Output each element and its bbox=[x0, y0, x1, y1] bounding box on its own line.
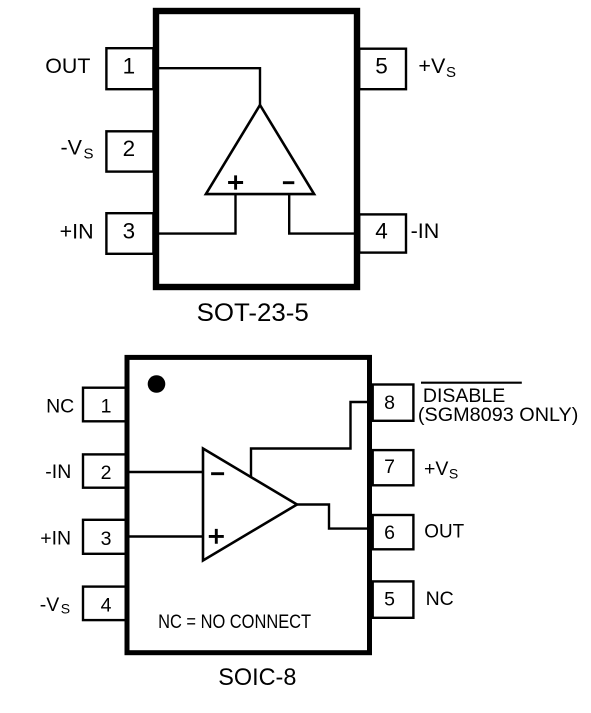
pin 8 box (SOIC) bbox=[373, 385, 414, 421]
pin 5 box bbox=[359, 49, 406, 89]
svg-text:3: 3 bbox=[101, 528, 112, 550]
svg-text:(SGM8093 ONLY): (SGM8093 ONLY) bbox=[418, 404, 579, 426]
pin 6 box (SOIC) bbox=[373, 515, 414, 549]
pin 2 box (SOIC) bbox=[83, 454, 126, 487]
wire pin 4 to op-amp - input bbox=[289, 193, 358, 234]
pin 1 box (SOIC) bbox=[83, 388, 126, 422]
svg-text:-IN: -IN bbox=[411, 219, 440, 243]
pin 3 box bbox=[106, 213, 153, 254]
svg-text:2: 2 bbox=[123, 136, 136, 161]
wire pin 1 to op-amp output bbox=[153, 68, 260, 106]
op-amp - input symbol (SOIC) bbox=[211, 472, 224, 475]
wire pin 3 to op-amp + input bbox=[153, 193, 236, 234]
IC body SOT-23-5 package outline bbox=[156, 11, 357, 287]
svg-text:+IN: +IN bbox=[60, 219, 94, 243]
pin 5 box (SOIC) bbox=[373, 581, 414, 617]
svg-text:+V: +V bbox=[418, 54, 446, 78]
op-amp A2 triangle (SOIC) bbox=[203, 449, 297, 561]
svg-text:-IN: -IN bbox=[45, 461, 71, 483]
svg-text:6: 6 bbox=[384, 522, 395, 544]
svg-text:2: 2 bbox=[101, 462, 112, 484]
pin 4 box bbox=[359, 214, 406, 252]
op-amp - input symbol bbox=[283, 181, 294, 184]
DISABLE overline bbox=[421, 382, 522, 384]
svg-text:5: 5 bbox=[375, 54, 388, 79]
svg-text:OUT: OUT bbox=[45, 54, 90, 78]
svg-text:1: 1 bbox=[101, 396, 112, 418]
svg-text:NC = NO CONNECT: NC = NO CONNECT bbox=[158, 611, 311, 633]
svg-text:-V: -V bbox=[61, 135, 83, 159]
op-amp A1 triangle (SOT-23-5) bbox=[206, 105, 314, 194]
pin 4 box (SOIC) bbox=[83, 587, 126, 621]
svg-text:8: 8 bbox=[384, 392, 395, 414]
IC body SOIC-8 package outline bbox=[127, 357, 370, 652]
wire pin 2 to op-amp - input (SOIC) bbox=[125, 471, 203, 473]
svg-text:SOT-23-5: SOT-23-5 bbox=[197, 300, 309, 327]
svg-text:3: 3 bbox=[123, 218, 136, 243]
pin 7 box (SOIC) bbox=[373, 450, 414, 485]
svg-text:+V: +V bbox=[424, 458, 448, 480]
svg-text:5: 5 bbox=[384, 589, 395, 611]
svg-text:SOIC-8: SOIC-8 bbox=[218, 664, 296, 691]
pin 1 indicator dot bbox=[148, 375, 166, 393]
svg-text:4: 4 bbox=[101, 595, 112, 617]
op-amp + input symbol bbox=[228, 175, 243, 189]
svg-text:S: S bbox=[61, 601, 70, 617]
wire pin 3 to op-amp + input (SOIC) bbox=[125, 535, 203, 537]
pin 1 box bbox=[106, 48, 153, 89]
wire op-amp output to pin 6 (SOIC) bbox=[296, 505, 372, 529]
svg-text:7: 7 bbox=[384, 456, 395, 478]
op-amp + input symbol (SOIC) bbox=[209, 529, 224, 544]
pin 3 box (SOIC) bbox=[83, 520, 126, 554]
svg-text:NC: NC bbox=[426, 588, 454, 610]
svg-text:1: 1 bbox=[123, 53, 136, 78]
svg-text:S: S bbox=[84, 145, 94, 162]
svg-text:NC: NC bbox=[46, 395, 74, 417]
pin 2 box bbox=[106, 131, 153, 171]
svg-text:OUT: OUT bbox=[424, 521, 464, 543]
wire pin 8 DISABLE to op-amp top edge (SOIC) bbox=[251, 402, 372, 478]
svg-text:-V: -V bbox=[40, 594, 60, 616]
svg-text:4: 4 bbox=[375, 218, 388, 243]
svg-text:+IN: +IN bbox=[40, 528, 71, 550]
svg-text:S: S bbox=[446, 64, 456, 81]
svg-text:S: S bbox=[449, 466, 458, 482]
